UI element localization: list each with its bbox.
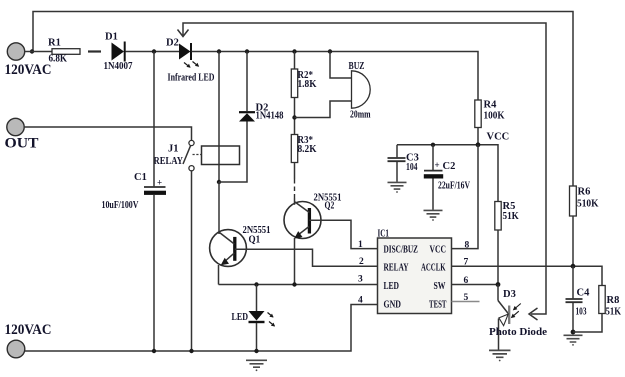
svg-text:1N4148: 1N4148 <box>256 111 284 122</box>
ground for C2 <box>424 210 443 217</box>
resistor R5 <box>495 202 501 231</box>
LED indicator <box>249 311 265 321</box>
arrow light into D3 1 <box>514 304 521 310</box>
wire pin6 stub <box>452 284 499 286</box>
resistor R6 <box>570 186 577 216</box>
svg-text:D2: D2 <box>166 38 179 49</box>
resistor R1 <box>52 49 80 55</box>
photo diode D3 <box>497 285 499 301</box>
node relay/Q1 junction dot <box>217 180 221 184</box>
transistor Q2 2N5551 <box>284 202 321 239</box>
svg-text:Q1: Q1 <box>249 235 261 246</box>
wire OUT to switch <box>24 127 192 140</box>
svg-text:120VAC: 120VAC <box>5 322 52 338</box>
svg-text:510K: 510K <box>577 199 599 210</box>
node Q2 emitter dot <box>292 282 296 286</box>
node D3 dot <box>496 282 501 287</box>
svg-text:D1: D1 <box>105 32 118 43</box>
svg-text:GND: GND <box>384 300 402 311</box>
wire top rail from node A to R6 <box>33 12 573 187</box>
svg-text:D3: D3 <box>503 289 516 300</box>
arrow annotation down at infrared LED <box>178 30 189 37</box>
ground for D3 <box>489 350 511 357</box>
node C4/R8 dot <box>571 330 576 335</box>
wire main from LED to R4 corner <box>192 52 479 101</box>
node R4 dot <box>476 142 481 147</box>
node C2 dot <box>431 143 435 147</box>
svg-text:1.8K: 1.8K <box>298 79 318 90</box>
switch J1 lever <box>183 146 191 164</box>
terminal 120VAC top <box>7 43 24 60</box>
node R2/R3/buzzer junction dot <box>292 115 296 119</box>
svg-text:DISC/BUZ: DISC/BUZ <box>384 245 419 256</box>
svg-text:2: 2 <box>359 257 364 267</box>
svg-text:+: + <box>157 178 162 188</box>
svg-text:6.8K: 6.8K <box>49 54 68 65</box>
svg-text:RELAY: RELAY <box>154 156 184 167</box>
svg-text:OUT: OUT <box>5 136 39 152</box>
node buzzer branch dot <box>328 49 332 53</box>
svg-text:20mm: 20mm <box>350 110 371 121</box>
wire main top from terminal to R1 <box>25 51 53 53</box>
ground for C3 <box>388 182 407 189</box>
svg-text:120VAC: 120VAC <box>5 62 52 78</box>
svg-text:R4: R4 <box>484 100 498 111</box>
node C1 branch dot <box>152 49 156 53</box>
wire from D1 to infrared LED <box>126 51 180 53</box>
svg-text:VCC: VCC <box>430 245 447 256</box>
svg-text:C4: C4 <box>577 288 591 299</box>
wire Q1 base to pin2 <box>235 249 378 266</box>
infrared LED D2 <box>179 44 191 60</box>
capacitor C3 <box>396 145 398 158</box>
svg-text:+: + <box>435 160 440 170</box>
wire junction down to Q1 collector <box>218 182 220 234</box>
node switch rail dot <box>189 349 193 353</box>
wire emitter rail to pin3 <box>219 284 378 286</box>
wire R8 to C4 node <box>573 314 602 333</box>
op-amp IC1 box <box>378 238 452 314</box>
arrow LED emission 2 <box>193 62 199 67</box>
svg-text:10uF/100V: 10uF/100V <box>102 200 140 211</box>
svg-text:LED: LED <box>232 312 249 323</box>
wire R4 to VCC node <box>477 128 479 145</box>
wire bottom rail to pin4 <box>25 305 378 352</box>
node A junction dot on main wire <box>30 49 34 53</box>
wire VCC rail <box>397 145 498 202</box>
switch J1 contact bottom <box>189 166 194 171</box>
buzzer BUZ 20mm <box>352 71 371 108</box>
node LED rail dot <box>254 349 258 353</box>
svg-text:TEST: TEST <box>429 300 447 311</box>
node R2 branch dot <box>292 49 296 53</box>
wire junction to D2 anode <box>219 122 247 183</box>
wire dash segment after R1 <box>88 50 101 52</box>
node C1 rail dot <box>152 349 156 353</box>
wire switch bottom to rail <box>191 171 193 351</box>
svg-text:1N4007: 1N4007 <box>104 61 133 72</box>
svg-text:J1: J1 <box>168 144 179 155</box>
node R6/C4 dot <box>571 264 576 269</box>
wire R6 to pin7 node <box>572 216 574 266</box>
capacitor C4 <box>572 266 574 298</box>
svg-text:C2: C2 <box>443 161 456 172</box>
svg-text:100K: 100K <box>484 111 506 122</box>
svg-text:22uF/16V: 22uF/16V <box>438 180 471 191</box>
wire R2 to R3 <box>294 98 296 135</box>
arrow annotation left at photo diode <box>529 308 538 320</box>
wire C1 branch <box>153 52 155 187</box>
svg-text:51K: 51K <box>503 211 520 222</box>
svg-text:SW: SW <box>434 281 446 292</box>
wire relay coil branch <box>218 52 220 183</box>
wire R3 to Q2 collector <box>294 163 296 180</box>
svg-text:104: 104 <box>406 162 418 173</box>
wire pin5 stub <box>452 301 480 303</box>
node LED branch dot <box>254 282 258 286</box>
svg-text:Infrared LED: Infrared LED <box>168 72 215 83</box>
wire R2 branch <box>294 52 296 70</box>
svg-text:R1: R1 <box>48 38 61 49</box>
diode D2 1N4148 <box>239 113 255 121</box>
switch J1 contact top <box>189 140 194 145</box>
svg-text:8: 8 <box>465 241 470 251</box>
svg-text:4: 4 <box>358 296 363 306</box>
wire LED branch <box>256 285 258 312</box>
wire LED to rail <box>256 323 258 351</box>
svg-text:LED: LED <box>384 281 400 292</box>
svg-text:Photo Diode: Photo Diode <box>489 327 547 338</box>
resistor R3 <box>291 135 297 163</box>
node relay branch dot <box>217 49 221 53</box>
resistor R4 <box>475 100 481 128</box>
resistor R2 <box>291 69 297 98</box>
wire buzzer bottom lead <box>295 101 352 118</box>
svg-text:IC1: IC1 <box>378 229 390 240</box>
wire R5 to pin6 node <box>497 230 499 285</box>
svg-text:R6: R6 <box>578 187 591 198</box>
relay J1 coil <box>202 146 240 165</box>
wire Q2 base to pin1 <box>309 220 377 248</box>
svg-text:8.2K: 8.2K <box>298 144 318 155</box>
resistor R8 <box>599 286 605 314</box>
arrow LED emission 1 <box>184 63 190 68</box>
svg-text:BUZ: BUZ <box>349 61 365 72</box>
capacitor C2 electrolytic <box>432 145 434 170</box>
svg-text:103: 103 <box>576 307 587 318</box>
ground for LED rail <box>246 360 267 367</box>
wire pin7 to R8 <box>452 266 603 285</box>
terminal 120VAC bottom <box>7 340 25 358</box>
terminal OUT <box>7 118 24 135</box>
wire annotation light-path line <box>183 23 546 314</box>
svg-text:ACCLK: ACCLK <box>421 263 446 274</box>
ground for C4 <box>564 335 583 342</box>
svg-text:1: 1 <box>358 240 363 250</box>
svg-text:3: 3 <box>358 275 363 285</box>
svg-text:VCC: VCC <box>487 132 510 143</box>
svg-text:Q2: Q2 <box>325 201 335 212</box>
wire buzzer top lead <box>330 52 352 79</box>
svg-text:C1: C1 <box>134 172 147 183</box>
svg-text:51K: 51K <box>606 307 622 318</box>
arrow LED emission 1 <box>268 313 274 318</box>
arrow LED emission 2 <box>269 322 275 327</box>
node D2 flyback dot <box>245 49 249 53</box>
transistor Q1 2N5551 <box>210 230 247 267</box>
svg-text:R8: R8 <box>607 295 620 306</box>
wire pin8 riser <box>452 145 479 249</box>
svg-text:RELAY: RELAY <box>384 263 410 274</box>
wire switch linkage dashed <box>193 154 202 156</box>
arrow light into D3 2 <box>512 311 519 317</box>
diode D1 1N4007 <box>112 43 125 61</box>
